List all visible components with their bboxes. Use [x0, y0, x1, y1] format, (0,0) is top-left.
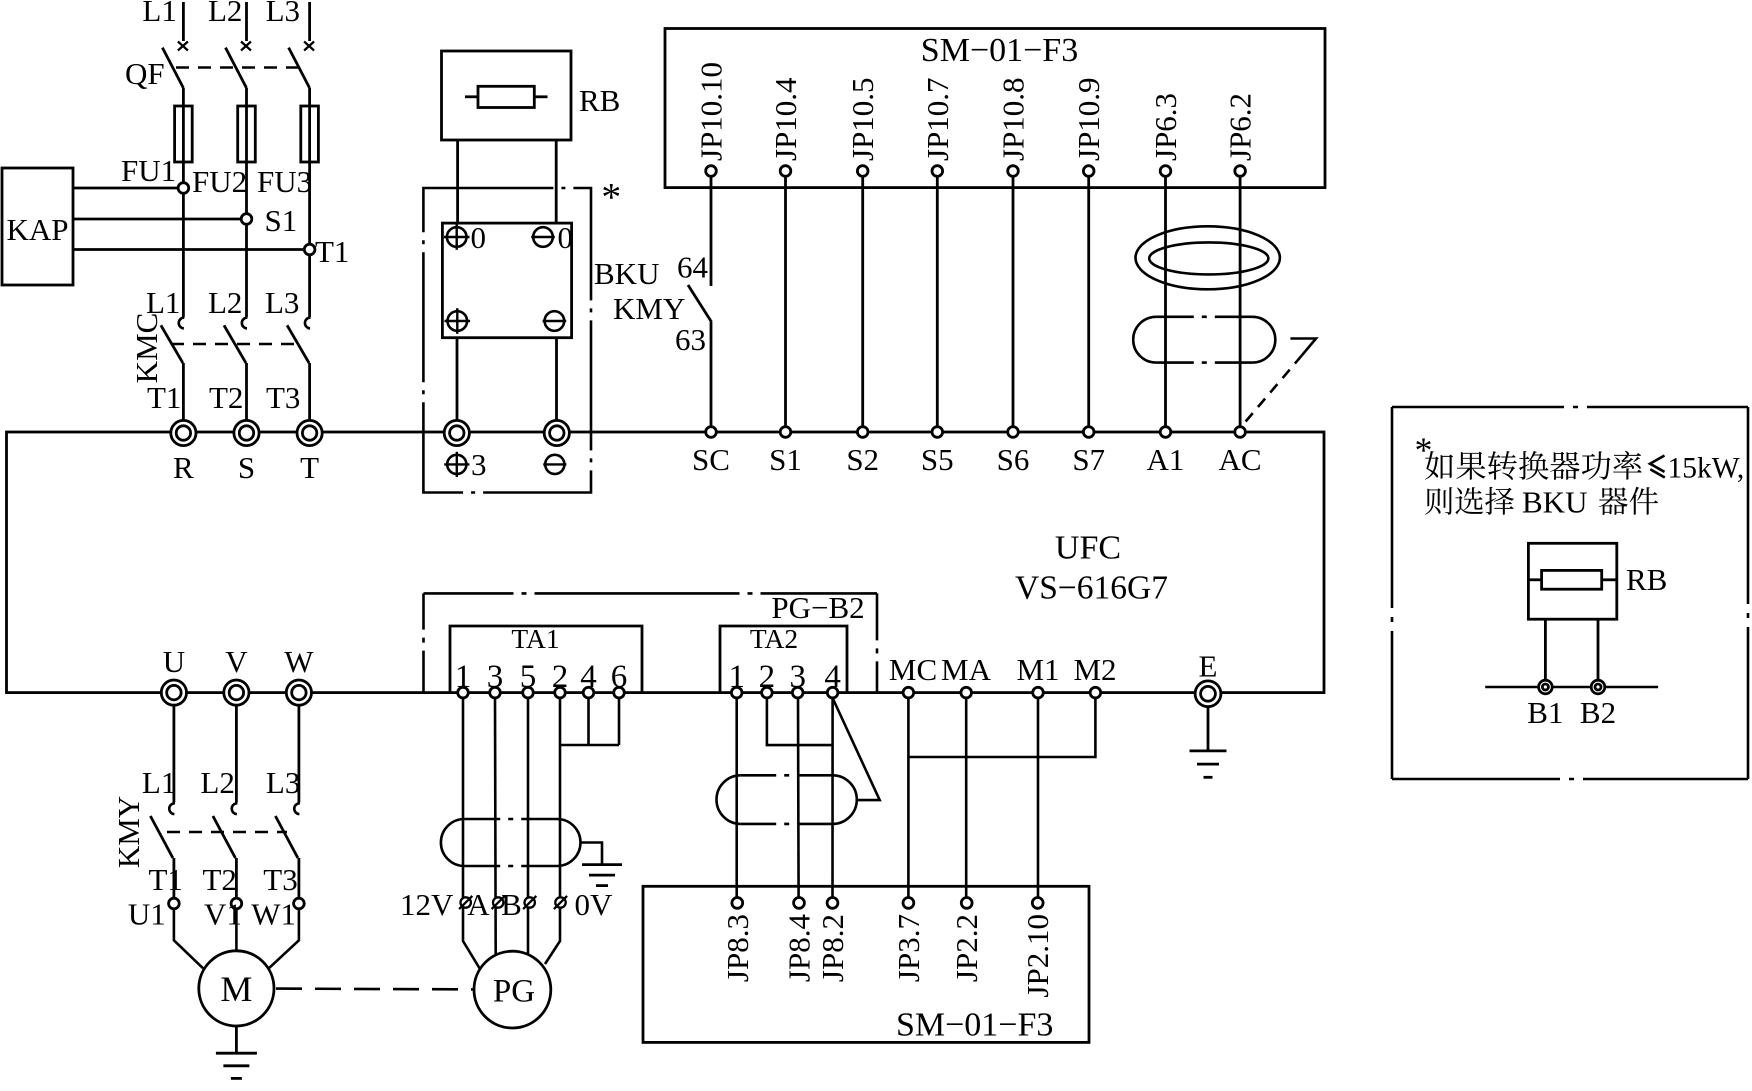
svg-text:S1: S1 — [769, 442, 802, 477]
terminal rail line B1 B2 — [1485, 686, 1658, 689]
twisted-pair loop symbol (inner ellipse) — [1149, 242, 1268, 274]
svg-text:JP10.9: JP10.9 — [1071, 77, 1106, 161]
footnote box dash-dot outline — [1392, 406, 1748, 409]
wire KAP to node T1 — [73, 248, 310, 251]
terminal S1 — [780, 427, 791, 438]
resistor RB element — [478, 86, 534, 107]
fuse FU3 — [301, 106, 319, 162]
svg-text:0V: 0V — [575, 887, 614, 922]
svg-text:T1: T1 — [315, 234, 349, 269]
cable shield (stadium) on PG cable — [441, 819, 465, 866]
svg-text:15kW,: 15kW, — [1668, 452, 1745, 484]
terminal block TA2 box — [720, 626, 847, 693]
conductor marker (slashed circle) near wire x=465.7 — [461, 897, 471, 907]
controller card SM-01-F3 (top) box — [665, 29, 1325, 188]
wire KMY pole 1 to node — [172, 858, 175, 898]
conductor marker (slashed circle) near wire x=498.2 — [493, 897, 503, 907]
svg-text:L2: L2 — [208, 0, 242, 28]
svg-text:L1: L1 — [142, 0, 176, 28]
terminal A1 — [1160, 427, 1171, 438]
svg-text:KMC: KMC — [129, 313, 164, 384]
terminal TA1-6 — [614, 687, 625, 698]
node U1 — [169, 898, 180, 909]
shield drain triangle at TA2-4 — [833, 698, 880, 800]
terminal TA2-1 — [731, 687, 742, 698]
wire L3 to fuse FU3 — [308, 88, 311, 162]
svg-text:SC: SC — [692, 442, 730, 477]
terminal TA1-1 — [458, 687, 469, 698]
cable shield (stadium) on A1/AC pair — [1133, 317, 1156, 363]
svg-text:FU3: FU3 — [257, 164, 312, 199]
braking unit BKU dash-dot outline — [423, 188, 591, 493]
svg-text:T3: T3 — [266, 380, 300, 415]
svg-text:RB: RB — [1626, 562, 1667, 597]
dashed shaft coupling motor to PG — [276, 987, 474, 990]
wire MC to JP3.7 — [907, 698, 910, 898]
svg-text:63: 63 — [675, 322, 706, 357]
wire contact 63 to terminal SC — [710, 322, 713, 427]
wire TA1-4 jumper down — [587, 698, 590, 745]
wire L1 incoming — [182, 2, 185, 41]
wire TA2-2 jumper to TA2-4 column — [767, 698, 833, 745]
wire motor to ground — [235, 1026, 238, 1053]
resistor RB box in note — [1528, 543, 1616, 619]
svg-text:JP2.2: JP2.2 — [949, 914, 984, 982]
svg-text:S1: S1 — [265, 203, 298, 238]
terminal TA1-3 — [490, 687, 501, 698]
svg-text:L3: L3 — [266, 0, 300, 28]
motor M — [199, 951, 274, 1026]
svg-text:S2: S2 — [846, 442, 879, 477]
wire V1 to motor — [235, 909, 238, 951]
svg-text:T: T — [300, 450, 319, 485]
svg-text:PG−B2: PG−B2 — [771, 590, 864, 625]
terminal TA1-5 — [523, 687, 534, 698]
pin JP6.2 terminal — [1235, 166, 1246, 177]
wire KAP to node S1 — [73, 218, 247, 221]
contactor KMY fixed contact arc pole 2 — [232, 803, 238, 814]
pin JP2.10 terminal — [1032, 898, 1043, 909]
svg-text:RB: RB — [579, 83, 620, 118]
svg-text:S5: S5 — [921, 442, 954, 477]
BKU lower terminal symbol plus — [448, 311, 468, 331]
wire RB to B1 — [1544, 619, 1547, 680]
wire L3 incoming — [308, 2, 311, 41]
svg-text:U: U — [163, 644, 185, 679]
pin JP10.8 terminal — [1008, 166, 1019, 177]
fuse FU2 — [238, 106, 256, 162]
node on L1 (FU1 tap) — [178, 183, 189, 194]
svg-text:U1: U1 — [128, 897, 166, 932]
svg-text:A: A — [467, 887, 490, 922]
terminal S6 — [1008, 427, 1019, 438]
svg-text:12V: 12V — [400, 887, 454, 922]
terminal TA2-4 — [827, 687, 838, 698]
wire JP10.4 to terminal S1 — [784, 176, 787, 426]
terminal S5 — [932, 427, 943, 438]
svg-text:0: 0 — [558, 220, 574, 255]
wire TA1-3 (A) to PG — [494, 698, 497, 956]
braking resistor unit RB box — [442, 51, 572, 140]
jumper TA1-2/4/6 horizontal — [560, 744, 619, 747]
wire TA2-3 to JP8.4 — [797, 698, 800, 898]
wire JP10.9 to terminal S7 — [1087, 176, 1090, 426]
svg-text:JP6.3: JP6.3 — [1148, 93, 1183, 161]
wire RB- to BKU — [555, 140, 558, 223]
svg-text:SM−01−F3: SM−01−F3 — [921, 32, 1078, 69]
terminal R — [171, 420, 196, 445]
wire KMC to terminal T — [308, 363, 311, 420]
node W1 — [294, 898, 305, 909]
svg-text:FU1: FU1 — [121, 153, 176, 188]
svg-text:KMY: KMY — [111, 796, 146, 868]
terminal B1 — [1539, 680, 1553, 694]
node S1 — [241, 214, 252, 225]
wire KAP to node on L1 — [73, 187, 183, 190]
svg-text:JP6.2: JP6.2 — [1223, 93, 1258, 161]
svg-text:JP10.5: JP10.5 — [845, 77, 880, 161]
contactor KMY blade pole 3 — [275, 816, 298, 858]
pin JP10.5 terminal — [857, 166, 868, 177]
svg-text:64: 64 — [677, 250, 709, 285]
pin JP3.7 terminal — [903, 898, 914, 909]
svg-text:T1: T1 — [149, 862, 183, 897]
terminal W — [286, 680, 311, 705]
terminal MC — [903, 687, 914, 698]
pin JP10.10 terminal — [706, 166, 717, 177]
terminal T — [297, 420, 322, 445]
svg-text:T3: T3 — [263, 862, 297, 897]
wire U to contactor KMY — [172, 705, 175, 802]
contactor KMC fixed contact arc pole 2 — [242, 318, 248, 329]
wire TA1-6 jumper down — [618, 698, 621, 745]
breaker QF blade pole 3 — [289, 48, 310, 88]
pin JP10.9 terminal — [1083, 166, 1094, 177]
terminal B2 — [1591, 680, 1605, 694]
conductor marker (slashed circle) near wire x=529.7 — [525, 897, 535, 907]
pin JP6.3 terminal — [1160, 166, 1171, 177]
svg-text:W: W — [284, 644, 314, 679]
encoder card PG-B2 dash-dot outline — [422, 593, 425, 692]
svg-text:MC: MC — [889, 652, 937, 687]
pin JP10.7 terminal — [932, 166, 943, 177]
wire M1 to JP2.10 — [1037, 698, 1040, 898]
contactor KMC blade pole 3 — [287, 325, 309, 363]
twisted-pair loop symbol (outer ellipse) on A1/AC — [1136, 226, 1280, 289]
wire RB+ to BKU — [456, 140, 459, 223]
ground symbol at motor — [216, 1052, 257, 1055]
terminal block TA1 box — [450, 626, 642, 693]
terminal TA2-2 — [762, 687, 773, 698]
wire W1 to motor — [269, 909, 299, 969]
breaker QF pole 3 open-terminal x mark — [304, 42, 314, 51]
pin JP8.3 terminal — [732, 898, 743, 909]
svg-text:JP8.2: JP8.2 — [815, 914, 850, 982]
svg-text:BKU: BKU — [1522, 484, 1587, 519]
svg-text:BKU: BKU — [594, 256, 659, 291]
svg-text:QF: QF — [125, 56, 165, 91]
wire L1 to fuse FU1 — [182, 88, 185, 162]
terminal TA2-3 — [792, 687, 803, 698]
terminal E — [1195, 681, 1221, 707]
svg-text:B2: B2 — [1580, 695, 1616, 730]
wire KMY pole 2 to node — [235, 858, 238, 898]
svg-text:L3: L3 — [266, 765, 300, 800]
label circle-minus — [545, 455, 564, 474]
wire KMY pole 3 to node — [297, 858, 300, 898]
wire L2 incoming — [245, 2, 248, 41]
wire BKU minus to terminal - — [555, 338, 558, 421]
breaker QF pole 1 open-terminal x mark — [178, 42, 188, 51]
node T1 — [304, 244, 315, 255]
wire TA1-1 (12V) to PG — [463, 698, 480, 969]
wire fuse FU2 to contactor KMC — [245, 162, 248, 317]
terminal U — [161, 680, 186, 705]
BKU lower terminal symbol minus — [545, 311, 565, 331]
wire JP10.7 to terminal S5 — [936, 176, 939, 426]
svg-text:T1: T1 — [147, 380, 181, 415]
wire JP10.10 to KMY contact 64 — [710, 176, 713, 286]
terminal V — [224, 680, 249, 705]
wire E to ground — [1207, 707, 1210, 751]
svg-text:JP10.4: JP10.4 — [768, 77, 803, 161]
terminal M1 — [1033, 687, 1044, 698]
svg-text:AC: AC — [1219, 442, 1262, 477]
contactor KMY blade pole 1 — [150, 816, 173, 858]
breaker QF blade pole 2 — [226, 48, 247, 88]
ground symbol at E — [1190, 750, 1227, 753]
svg-text:TA2: TA2 — [750, 623, 798, 654]
svg-text:S6: S6 — [997, 442, 1030, 477]
svg-text:T2: T2 — [203, 862, 237, 897]
svg-text:L2: L2 — [200, 765, 234, 800]
wire BKU plus to terminal +3 — [456, 338, 459, 421]
BKU terminal symbol minus-0 — [533, 227, 553, 247]
wire TA2-1 to JP8.3 — [735, 698, 738, 898]
svg-text:JP10.10: JP10.10 — [694, 62, 729, 161]
contactor KMC linkage dashed line — [171, 343, 298, 345]
terminal M2 — [1090, 687, 1101, 698]
svg-text:V: V — [225, 644, 248, 679]
svg-text:M2: M2 — [1073, 652, 1116, 687]
conductor marker (slashed circle) near wire x=560.5 — [555, 897, 565, 907]
inverter UFC VS-616G7 box — [7, 432, 1325, 693]
svg-text:JP8.4: JP8.4 — [782, 914, 817, 983]
terminal S — [234, 420, 259, 445]
shield ground stub of PG cable — [581, 843, 603, 865]
svg-text:*: * — [1415, 430, 1433, 470]
svg-text:S7: S7 — [1072, 442, 1105, 477]
terminal TA1-4 — [583, 687, 594, 698]
terminal SC — [706, 427, 717, 438]
terminal +3 on UFC — [444, 420, 469, 445]
svg-text:SM−01−F3: SM−01−F3 — [896, 1007, 1053, 1044]
svg-text:UFC: UFC — [1055, 530, 1121, 567]
svg-text:KMY: KMY — [613, 291, 685, 326]
label circle-plus 3 — [447, 455, 466, 474]
dashed drain wire to AC — [1244, 355, 1303, 424]
shield drain pennant at A1/AC — [1290, 339, 1316, 356]
svg-text:JP10.7: JP10.7 — [920, 77, 955, 161]
wire V to contactor KMY — [235, 705, 238, 802]
svg-text:M1: M1 — [1016, 652, 1059, 687]
terminal S2 — [857, 427, 868, 438]
encoder PG — [474, 951, 551, 1028]
terminal TA1-2 — [555, 687, 566, 698]
contactor KMC fixed contact arc pole 3 — [305, 318, 311, 329]
wire fuse FU1 to contactor KMC — [182, 162, 185, 317]
note text line 1 (Chinese): ruguo zhuanhuanqi gonglv <= 15kW, — [1425, 451, 1453, 480]
svg-text:B1: B1 — [1527, 695, 1563, 730]
less-or-equal symbol — [1650, 456, 1665, 472]
BKU terminal symbol plus-0 — [447, 227, 467, 247]
svg-text:KAP: KAP — [6, 212, 68, 247]
pin JP8.2 terminal — [827, 898, 838, 909]
wire TA1-2 (0V) to PG — [545, 698, 560, 964]
svg-text:L2: L2 — [208, 285, 242, 320]
svg-text:B: B — [501, 887, 522, 922]
pin JP8.4 terminal — [794, 898, 805, 909]
note text line 2 (Chinese): ze xuanze BKU qijian — [1425, 487, 1452, 515]
pin JP10.4 terminal — [780, 166, 791, 177]
svg-text:PG: PG — [493, 974, 535, 1010]
braking unit BKU inner box — [442, 223, 571, 338]
wire U1 to motor — [174, 909, 203, 969]
wire TA1-5 (B) to PG — [527, 698, 530, 955]
svg-text:T2: T2 — [209, 380, 243, 415]
breaker QF pole 2 open-terminal x mark — [241, 42, 251, 51]
terminal S7 — [1083, 427, 1094, 438]
breaker QF blade pole 1 — [162, 48, 183, 88]
ground symbol (PG cable shield) — [582, 863, 622, 866]
wire JP6.3 to terminal A1 — [1164, 176, 1167, 426]
cable shield (stadium) on TA2 cable — [716, 775, 740, 824]
wire JP10.5 to terminal S2 — [861, 176, 864, 426]
pin JP2.2 terminal — [961, 898, 972, 909]
svg-text:*: * — [601, 175, 621, 220]
svg-text:VS−616G7: VS−616G7 — [1015, 570, 1168, 607]
contactor KMC fixed contact arc pole 1 — [179, 318, 185, 329]
svg-text:JP10.8: JP10.8 — [996, 77, 1031, 161]
svg-text:JP3.7: JP3.7 — [891, 914, 926, 982]
contactor KMY fixed contact arc pole 3 — [294, 803, 300, 814]
svg-text:L1: L1 — [142, 765, 176, 800]
svg-text:3: 3 — [471, 447, 487, 482]
wire MA to JP2.2 — [965, 698, 968, 898]
contactor KMY blade pole 2 — [213, 816, 236, 858]
contact KMY 64-63 blade — [688, 285, 712, 322]
svg-text:S: S — [238, 450, 255, 485]
svg-text:MA: MA — [941, 652, 992, 687]
wire TA2-4 to JP8.2 — [831, 698, 834, 898]
node V1 — [231, 898, 242, 909]
wire L2 to fuse FU2 — [245, 88, 248, 162]
fuse FU1 — [175, 106, 193, 162]
wire JP10.8 to terminal S6 — [1012, 176, 1015, 426]
breaker QF linkage dashed line — [176, 66, 302, 68]
wire W to contactor KMY — [297, 705, 300, 802]
contactor KMY fixed contact arc pole 1 — [169, 803, 175, 814]
svg-text:0: 0 — [471, 220, 487, 255]
svg-text:L3: L3 — [265, 285, 299, 320]
wire KMC to terminal S — [245, 363, 248, 420]
terminal AC — [1235, 427, 1246, 438]
wire JP6.2 to terminal AC — [1239, 176, 1242, 426]
svg-text:FU2: FU2 — [192, 164, 247, 199]
controller KAP box — [2, 168, 73, 285]
svg-text:R: R — [173, 450, 194, 485]
contactor KMC blade pole 1 — [161, 325, 183, 363]
contactor KMY linkage dashed line — [167, 831, 287, 833]
svg-text:JP8.3: JP8.3 — [720, 914, 755, 982]
terminal MA — [961, 687, 972, 698]
svg-text:M: M — [220, 969, 252, 1009]
contactor KMC blade pole 2 — [224, 325, 246, 363]
resistor RB element in note — [1542, 570, 1602, 589]
svg-text:W1: W1 — [251, 897, 296, 932]
wire M2 tie to MC — [908, 698, 1095, 757]
wire fuse FU3 to contactor KMC — [308, 162, 311, 317]
svg-text:A1: A1 — [1147, 442, 1185, 477]
terminal - on UFC — [544, 420, 569, 445]
svg-text:JP2.10: JP2.10 — [1020, 914, 1055, 998]
svg-text:TA1: TA1 — [511, 623, 559, 654]
wire KMC to terminal R — [182, 363, 185, 420]
controller card SM-01-F3 (bottom) box — [643, 886, 1089, 1042]
svg-text:E: E — [1199, 649, 1218, 684]
wire RB to B2 — [1597, 619, 1600, 680]
